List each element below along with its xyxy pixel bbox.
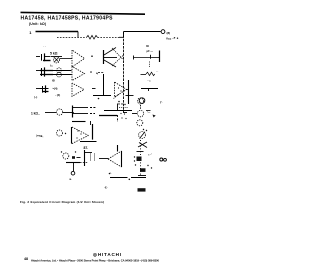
bus line B3 (140, 140, 142, 176)
svg-text:ᴹı: ᴹı (96, 72, 98, 75)
input row 3 wire (36, 88, 40, 90)
capacitor C1 (134, 57, 153, 59)
svg-text:ƒ.: ƒ. (160, 100, 163, 104)
wire dashed (117, 115, 119, 122)
ground bar (66, 162, 80, 164)
svg-text:48: 48 (24, 257, 28, 261)
transistor circle T4 (139, 132, 146, 139)
wire dash above T2 (140, 105, 142, 109)
svg-text:⊢5k,: ⊢5k, (37, 133, 44, 138)
Vcc rail left segment (36, 31, 79, 33)
node dots (143, 129, 144, 130)
transistor Q7 diagonals (112, 48, 124, 60)
amplifier A1 (72, 50, 85, 67)
resistor R3 (141, 88, 158, 90)
svg-text:(8): (8) (167, 31, 171, 35)
Vee rail (110, 177, 128, 179)
svg-text:. .: . . (156, 70, 158, 73)
svg-text:◎HITACHI: ◎HITACHI (93, 252, 121, 257)
input row 2 wire (36, 70, 40, 72)
node dots (61, 151, 62, 152)
wire vertical into A6 (117, 145, 119, 152)
Vcc terminal (161, 30, 165, 34)
resistor R1 (87, 35, 98, 39)
node dot (118, 101, 120, 103)
svg-text:(−): (−) (34, 95, 37, 99)
input row 3 transistor Q3 (42, 86, 44, 93)
amplifier A6 (121, 151, 123, 167)
current source CS3 (57, 72, 62, 77)
svg-text:≈(4): ≈(4) (53, 87, 58, 91)
svg-text:· (4): · (4) (55, 93, 60, 97)
node tick (90, 121, 92, 125)
input row 2 transistor Q2 (41, 68, 43, 76)
node dot (90, 71, 92, 73)
node dots (147, 165, 148, 166)
rail break mark (129, 179, 131, 181)
wire tick (126, 95, 134, 97)
svg-text:′·: ′· (110, 172, 112, 176)
svg-text:′—: ′— (147, 110, 151, 114)
label Vee bold (138, 188, 146, 191)
dots inside A5 (77, 130, 78, 131)
wire (117, 104, 119, 111)
node dot (109, 173, 111, 175)
output terminal O2 (164, 158, 167, 161)
header rule (21, 12, 146, 14)
svg-text:ˇ ≈: ˇ ≈ (148, 79, 152, 83)
amplifier A2 (72, 66, 85, 80)
wire (80, 141, 97, 143)
wire thick (99, 115, 117, 117)
svg-text:ʙ.: ʙ. (70, 178, 73, 181)
dashed bias line (57, 37, 87, 39)
bus line B2 (128, 80, 130, 104)
svg-text:I₀₁: I₀₁ (50, 64, 53, 68)
wire corner to rail (119, 32, 124, 38)
wire (60, 58, 72, 60)
bus B1 foot (124, 112, 128, 114)
wire (93, 95, 111, 97)
resistor R2 (146, 72, 155, 75)
node dot (98, 98, 100, 100)
svg-text:1: 1 (29, 30, 32, 35)
node blob2 (140, 168, 146, 172)
node blob3 (72, 156, 75, 159)
wire into A6 (99, 158, 108, 160)
transistor Q5 (103, 50, 105, 64)
emitter arrow (153, 115, 156, 118)
transistor circle T3 (137, 120, 143, 126)
svg-text:Hitachi America, Ltd. • Hitach: Hitachi America, Ltd. • Hitachi Plaza • … (31, 258, 160, 262)
transistor circle T1 (138, 98, 144, 104)
transistor Q8 (139, 98, 145, 104)
svg-text:pF —: pF — (147, 49, 154, 53)
svg-text:(Unit: kΩ): (Unit: kΩ) (29, 22, 46, 26)
wire dash-dot (98, 72, 104, 74)
label dots right (174, 37, 175, 38)
svg-text:Vcc ··: Vcc ·· (166, 36, 174, 40)
wire (85, 152, 92, 154)
wire dash (77, 157, 81, 159)
wire vertical (84, 150, 86, 166)
dots inside A4 (118, 87, 119, 88)
svg-text:87.: 87. (84, 146, 89, 150)
capacitor C2 (90, 154, 92, 162)
Vcc rail right segment (124, 31, 161, 33)
transistor Q10 (72, 106, 74, 118)
svg-text:·Є·: ·Є· (104, 185, 108, 189)
wire dashes (80, 162, 88, 164)
svg-text:HA17458, HA17458PS, HA17904PS: HA17458, HA17458PS, HA17904PS (21, 15, 114, 21)
wire (138, 175, 146, 177)
svg-text:30: 30 (146, 44, 149, 48)
wire A4 output (127, 89, 130, 91)
svg-text:5 kΩ: 5 kΩ (50, 51, 58, 55)
wire (98, 37, 120, 39)
wire under label (51, 56, 63, 58)
wire dashes (90, 107, 96, 109)
transistor Q12 (63, 153, 69, 159)
input row 1 wire (36, 56, 40, 58)
input row 1 transistor Q1 (41, 54, 43, 61)
bus line B1 (123, 32, 125, 113)
bias feed wire (72, 121, 86, 123)
transistor T5 diagonals (138, 142, 147, 147)
wire (45, 112, 56, 114)
wire (137, 151, 144, 153)
svg-text:Fig. 2 Equivalent Circuit Dia: Fig. 2 Equivalent Circuit Diagram (1/2 U… (20, 200, 104, 204)
wire (63, 112, 74, 114)
svg-text:≈ ⋅′: ≈ ⋅′ (148, 152, 152, 156)
amplifier A4 (115, 82, 127, 97)
pin 4 terminal (71, 171, 75, 175)
dotted wire (119, 107, 128, 109)
transistor Q9 (57, 109, 63, 115)
wire (104, 110, 132, 112)
svg-text:. .: . . (44, 44, 46, 47)
wire dotted vertical (149, 62, 151, 69)
label marks (146, 110, 151, 112)
transistor circle T2 (137, 110, 143, 116)
node dots cluster (120, 113, 121, 114)
rail step down (77, 32, 79, 38)
svg-text:1 kΩ..: 1 kΩ.. (31, 112, 40, 116)
output terminal O1 (160, 158, 163, 161)
wire (53, 70, 72, 72)
wire vertical (103, 74, 105, 96)
node dots right of A6 (134, 156, 135, 157)
amplifier A3 (72, 83, 84, 96)
current source CS2 (57, 68, 62, 73)
node dots (118, 103, 119, 104)
pin 4 lead (73, 163, 75, 171)
wire dash (92, 88, 96, 90)
collector bar (92, 124, 94, 140)
wire (132, 113, 137, 115)
node dot (91, 55, 93, 57)
current source CS1 (53, 57, 59, 63)
svg-text:Iʘ: Iʘ (52, 79, 55, 83)
node blob (137, 157, 142, 162)
amplifier A5 (71, 127, 73, 144)
dashed diagonal (114, 94, 120, 99)
transistor Q11 (57, 130, 63, 136)
